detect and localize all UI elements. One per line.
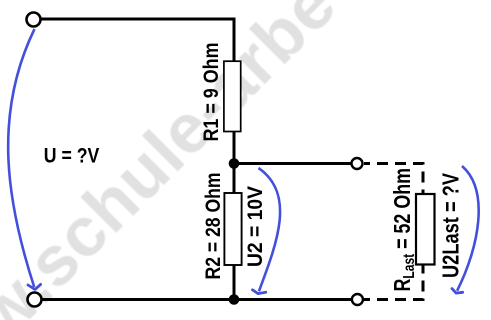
wire R2 to bottom xyxy=(233,265,236,300)
svg-text:U = ?V: U = ?V xyxy=(44,144,100,168)
resistor R1 xyxy=(224,61,241,131)
terminal bottom-right xyxy=(352,294,363,305)
node junction bottom xyxy=(229,294,240,305)
arrow U2Last right xyxy=(457,166,479,291)
wire dashed mid to RLast top xyxy=(364,164,423,195)
terminal mid-right xyxy=(352,158,363,169)
svg-text:R1 = 9 Ohm: R1 = 9 Ohm xyxy=(199,43,223,142)
wire R2 junction to resistor xyxy=(233,164,236,194)
resistor R2 xyxy=(224,193,241,265)
svg-text:U2Last = ?V: U2Last = ?V xyxy=(438,172,464,278)
wire top: from terminal to corner and down to R1 xyxy=(41,19,234,62)
arrow U2 middle xyxy=(259,168,281,291)
arrow U left xyxy=(8,29,34,287)
svg-text:RLast = 52 Ohm: RLast = 52 Ohm xyxy=(389,168,418,292)
resistor RLast xyxy=(416,194,435,265)
svg-text:U2 = 10V: U2 = 10V xyxy=(244,186,267,267)
wire bottom xyxy=(41,298,352,301)
wire junction to middle terminal xyxy=(234,162,352,165)
wire dashed bottom to RLast xyxy=(364,265,423,300)
terminal bottom-left xyxy=(28,293,42,307)
terminal top-left xyxy=(27,13,41,27)
svg-text:R2 = 28 Ohm: R2 = 28 Ohm xyxy=(201,173,225,280)
wire R1 to junction xyxy=(233,132,236,164)
node junction mid xyxy=(229,158,240,169)
